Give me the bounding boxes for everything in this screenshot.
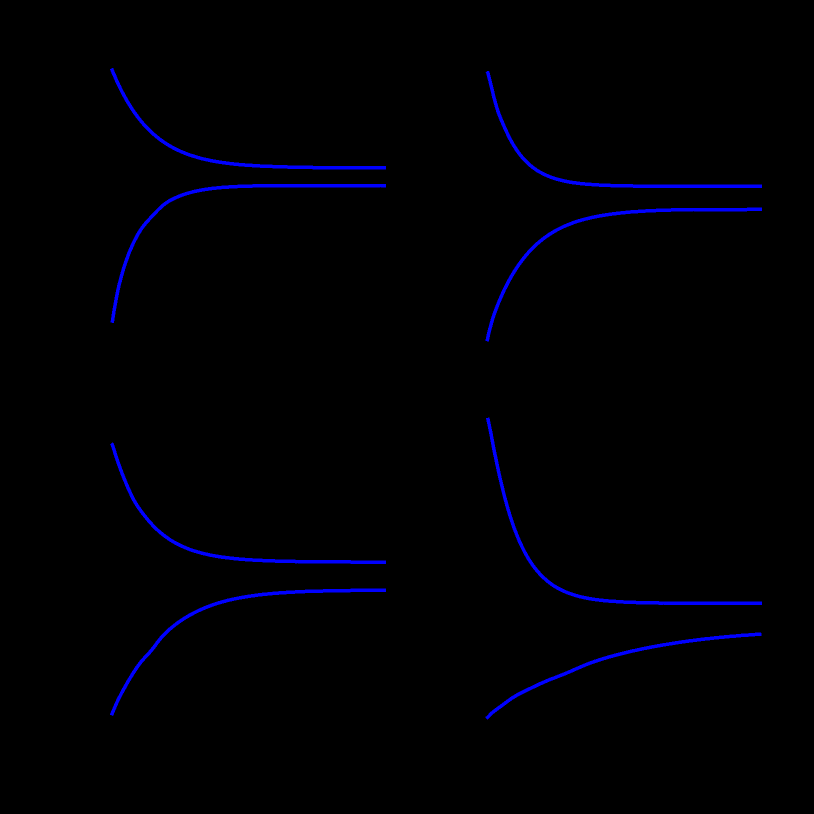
curve subplot(2,2) upper hyperbolic branch: [488, 418, 762, 604]
curve subplot(1,2) upper hyperbolic branch: [487, 73, 762, 187]
curve subplot(2,2) lower hyperbolic branch: [486, 634, 761, 718]
curve subplot(1,1) upper hyperbolic branch: [112, 69, 386, 168]
curve subplot(1,2) lower hyperbolic branch: [487, 209, 762, 341]
curve subplot(2,1) lower hyperbolic branch: [111, 590, 386, 715]
curve subplot(2,1) upper hyperbolic branch: [111, 443, 386, 562]
curve subplot(1,1) lower hyperbolic branch: [112, 186, 386, 323]
